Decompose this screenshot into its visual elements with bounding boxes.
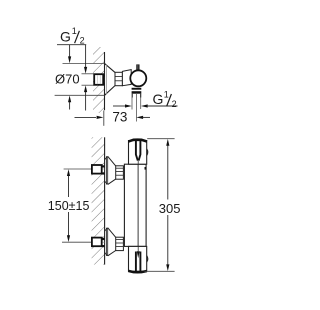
dimension 73 (wall to outlet) — [75, 104, 151, 125]
lower arrow (up) — [69, 102, 71, 110]
outlet pipe (side view) — [132, 94, 141, 98]
label G 1/2 (outlet, right) with leader arrow — [141, 90, 178, 110]
escutcheon flange, bottom union (front view) — [105, 228, 116, 256]
union socket in wall, top (front view) — [92, 165, 105, 175]
adapter between nut and body (side view) — [122, 70, 131, 86]
wall (hatched band, front view) — [92, 137, 105, 264]
safestop button on top of circle — [136, 64, 139, 69]
dimension Ø70 (escutcheon diameter, side view) — [55, 45, 105, 110]
bottom extension line — [55, 94, 105, 96]
knob end-on circle (side view) — [130, 70, 146, 86]
top extension line — [63, 62, 105, 64]
dimension 305 extension lines — [145, 139, 175, 272]
svg-text:73: 73 — [112, 109, 127, 124]
dimension 305 line and arrows — [159, 139, 181, 271]
pipe extension lines for dim 73 — [132, 94, 141, 122]
escutcheon cone (side view) — [105, 63, 116, 95]
bottom knob (front view) — [128, 246, 147, 272]
hex nut, bottom union (front view) — [116, 237, 124, 250]
svg-text:150±15: 150±15 — [48, 199, 90, 213]
dimension 150±15 line and arrows — [48, 169, 90, 242]
label G 1/2 (top-left) — [57, 26, 86, 46]
svg-text:1: 1 — [164, 90, 169, 100]
escutcheon flange, top union (front view) — [105, 156, 116, 184]
svg-text:305: 305 — [159, 201, 181, 216]
wall face line — [104, 52, 106, 110]
svg-text:1: 1 — [72, 26, 77, 36]
svg-text:G: G — [153, 91, 164, 107]
dimension 150±15 extension lines — [62, 169, 105, 242]
top knob (front view) — [128, 140, 147, 165]
upper arrow (down) — [69, 45, 71, 57]
svg-text:2: 2 — [172, 99, 177, 109]
svg-text:Ø70: Ø70 — [55, 71, 80, 86]
wall face line — [104, 137, 106, 264]
union square in wall (side view) — [94, 74, 105, 85]
wall (hatched band, side view) — [93, 47, 105, 113]
extension stubs from union square — [82, 73, 94, 75]
upper arrow (down) — [85, 45, 87, 68]
lower arrow (up) — [85, 92, 87, 111]
hex nut, top union (front view) — [116, 166, 124, 179]
dimension G1/2 leader arrows (union thread, side view) — [82, 45, 94, 111]
outlet coupling band below circle — [132, 88, 142, 94]
mixer body (front view) — [124, 164, 146, 246]
svg-text:2: 2 — [80, 36, 85, 46]
hex nut (side view) — [115, 72, 122, 85]
svg-text:G: G — [60, 29, 71, 45]
union socket in wall, bottom (front view) — [92, 238, 105, 248]
